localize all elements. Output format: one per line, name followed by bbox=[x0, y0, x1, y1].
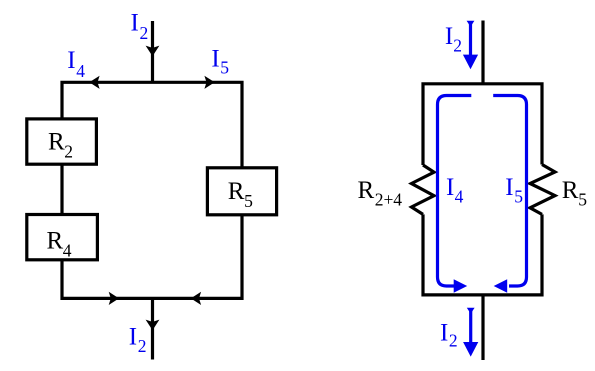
wire: bottom rail from R4 branch over bottom junction to R5 branch bbox=[62, 215, 242, 298]
svg-text:I: I bbox=[445, 23, 453, 50]
svg-text:2: 2 bbox=[453, 36, 462, 56]
arrowhead: I5 returning (left) on bottom rail bbox=[191, 292, 201, 305]
svg-text:2: 2 bbox=[449, 331, 458, 351]
svg-text:I: I bbox=[446, 174, 454, 201]
svg-text:5: 5 bbox=[220, 58, 229, 78]
resistor R2 (box) bbox=[27, 119, 97, 164]
label I4 (top left circuit) bbox=[67, 47, 85, 81]
label R5 (in box) bbox=[228, 178, 253, 211]
wire: between R2 and R4 bbox=[60, 164, 63, 214]
label I2 (top right circuit) bbox=[445, 23, 462, 55]
arrowhead: I5 current direction (right) on top rail bbox=[204, 76, 214, 89]
label I4 (right circuit) bbox=[446, 174, 464, 206]
svg-text:I: I bbox=[505, 174, 513, 201]
wire: bottom drain stub carrying I2 out of bottom node bbox=[151, 298, 154, 359]
current arrow I2 (blue, down) at bottom of right circuit bbox=[463, 308, 478, 357]
label I5 (right circuit) bbox=[505, 174, 523, 206]
svg-text:R: R bbox=[562, 177, 579, 204]
current arrow I2 (blue, down) at top of right circuit bbox=[463, 21, 478, 70]
wire: upper loop of parallel pair (left side, top, right side) bbox=[423, 84, 542, 165]
arrowhead: I4 current direction (left) on top rail bbox=[89, 76, 99, 89]
label I2 (bottom left circuit) bbox=[129, 323, 147, 356]
resistor R5 (zigzag on right side) bbox=[530, 165, 555, 215]
resistor R4 (box) bbox=[27, 215, 98, 260]
wire: top feed stub carrying I2 into top node bbox=[151, 21, 154, 82]
svg-text:I: I bbox=[131, 9, 139, 36]
svg-text:2: 2 bbox=[64, 142, 73, 162]
wire: top rail from R2 branch over top junction to R5 branch bbox=[62, 82, 242, 168]
svg-text:R: R bbox=[358, 177, 375, 204]
svg-text:2: 2 bbox=[140, 23, 149, 43]
resistor R2+4 (zigzag on left side) bbox=[412, 165, 435, 214]
arrowhead: I4 returning (right) on bottom rail bbox=[109, 292, 119, 305]
svg-text:5: 5 bbox=[244, 191, 253, 211]
label I2 (bottom right circuit) bbox=[440, 320, 458, 351]
wire: top feed stub (right circuit) bbox=[481, 21, 484, 84]
svg-text:5: 5 bbox=[578, 189, 587, 209]
arrowhead: I2 current direction (down) on bottom drain stub bbox=[146, 320, 160, 331]
label R5 (right of zigzag) bbox=[562, 177, 588, 209]
label I5 (top left circuit) bbox=[211, 45, 229, 77]
svg-text:2+4: 2+4 bbox=[375, 189, 403, 209]
svg-text:4: 4 bbox=[63, 240, 72, 260]
wire: lower loop of parallel pair (left side, bottom, right side) bbox=[423, 214, 542, 295]
resistor R5 (box) bbox=[207, 168, 276, 215]
svg-text:I: I bbox=[67, 47, 75, 74]
svg-text:4: 4 bbox=[76, 61, 85, 81]
svg-text:R: R bbox=[48, 129, 65, 156]
svg-text:5: 5 bbox=[514, 186, 523, 206]
current loop I5 (blue, right loop with arrow at bottom) bbox=[493, 96, 526, 293]
label R2 bbox=[48, 129, 73, 162]
svg-text:R: R bbox=[47, 228, 64, 255]
label R4 bbox=[47, 228, 72, 261]
arrowhead: I2 current direction (down) on top feed stub bbox=[146, 46, 160, 57]
svg-text:I: I bbox=[129, 323, 137, 350]
svg-text:I: I bbox=[211, 45, 219, 72]
label R2+4 bbox=[358, 177, 403, 209]
svg-text:2: 2 bbox=[138, 336, 147, 356]
wire: bottom drain stub (right circuit) bbox=[481, 295, 484, 360]
svg-text:I: I bbox=[440, 320, 448, 347]
svg-text:4: 4 bbox=[455, 186, 464, 206]
label I2 (top left circuit) bbox=[131, 9, 149, 43]
svg-text:R: R bbox=[228, 178, 245, 205]
current loop I4 (blue, left loop with arrow at bottom) bbox=[438, 96, 472, 293]
